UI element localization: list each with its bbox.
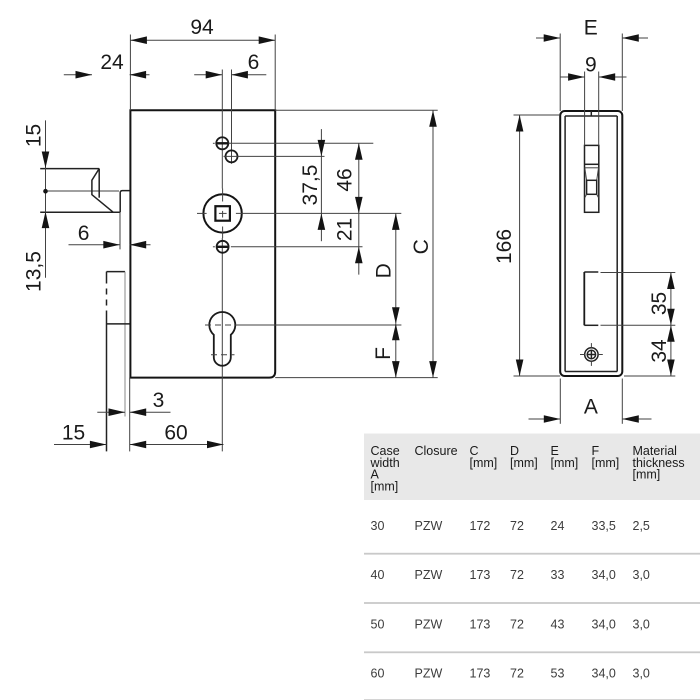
svg-text:173: 173 — [470, 568, 491, 582]
svg-text:[mm]: [mm] — [633, 468, 661, 482]
svg-text:PZW: PZW — [415, 519, 443, 533]
svg-text:30: 30 — [371, 519, 385, 533]
svg-text:F: F — [372, 347, 395, 360]
svg-text:3,0: 3,0 — [633, 667, 650, 681]
svg-text:PZW: PZW — [415, 568, 443, 582]
svg-text:PZW: PZW — [415, 617, 443, 631]
svg-text:E: E — [584, 17, 598, 40]
svg-text:D: D — [373, 263, 396, 278]
svg-text:72: 72 — [510, 617, 524, 631]
svg-text:60: 60 — [164, 422, 187, 445]
svg-text:37,5: 37,5 — [299, 165, 322, 206]
svg-text:15: 15 — [62, 422, 85, 445]
svg-text:72: 72 — [510, 519, 524, 533]
svg-text:Closure: Closure — [415, 444, 458, 458]
svg-text:60: 60 — [371, 667, 385, 681]
svg-text:PZW: PZW — [415, 667, 443, 681]
svg-text:C: C — [410, 239, 433, 254]
svg-text:172: 172 — [470, 519, 491, 533]
svg-text:173: 173 — [470, 617, 491, 631]
svg-text:72: 72 — [510, 568, 524, 582]
svg-text:33: 33 — [551, 568, 565, 582]
svg-text:166: 166 — [493, 229, 516, 264]
svg-text:24: 24 — [551, 519, 565, 533]
svg-text:[mm]: [mm] — [592, 456, 620, 470]
svg-text:34,0: 34,0 — [592, 667, 616, 681]
svg-text:2,5: 2,5 — [633, 519, 650, 533]
svg-text:A: A — [584, 396, 598, 419]
svg-text:15: 15 — [23, 124, 46, 147]
svg-text:173: 173 — [470, 667, 491, 681]
svg-text:40: 40 — [371, 568, 385, 582]
svg-text:72: 72 — [510, 667, 524, 681]
svg-text:33,5: 33,5 — [592, 519, 616, 533]
svg-text:[mm]: [mm] — [371, 479, 399, 493]
svg-text:[mm]: [mm] — [551, 456, 579, 470]
svg-text:13,5: 13,5 — [23, 251, 46, 292]
svg-text:9: 9 — [585, 53, 597, 76]
svg-text:35: 35 — [648, 292, 671, 315]
svg-text:[mm]: [mm] — [510, 456, 538, 470]
svg-text:3,0: 3,0 — [633, 617, 650, 631]
svg-text:3,0: 3,0 — [633, 568, 650, 582]
svg-text:34,0: 34,0 — [592, 568, 616, 582]
svg-text:34,0: 34,0 — [592, 617, 616, 631]
svg-text:6: 6 — [248, 51, 260, 74]
svg-text:94: 94 — [190, 16, 214, 39]
svg-text:21: 21 — [334, 218, 357, 241]
svg-text:53: 53 — [551, 667, 565, 681]
svg-text:[mm]: [mm] — [470, 456, 498, 470]
svg-text:34: 34 — [648, 339, 671, 363]
svg-text:50: 50 — [371, 617, 385, 631]
svg-text:24: 24 — [100, 51, 124, 74]
svg-text:6: 6 — [78, 222, 90, 245]
svg-text:43: 43 — [551, 617, 565, 631]
svg-text:46: 46 — [334, 168, 357, 191]
svg-text:3: 3 — [153, 389, 165, 412]
